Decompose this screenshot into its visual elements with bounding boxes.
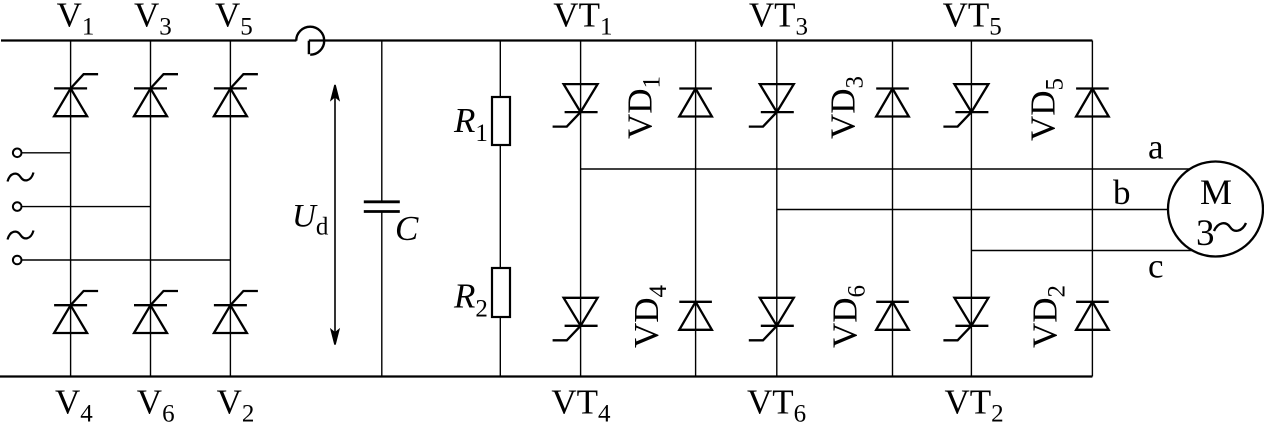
- fuse / breaker symbol on top bus: [296, 27, 324, 55]
- diode VD3: [876, 89, 909, 117]
- wire: bottom DC bus: [0, 375, 1092, 377]
- AC source tilde 1: [8, 173, 34, 182]
- diode VD2: [1076, 302, 1109, 330]
- diode VD6: [876, 302, 909, 330]
- AC terminal 1: [13, 149, 22, 158]
- thyristor V2: [214, 291, 258, 333]
- thyristor V4: [54, 291, 98, 333]
- Ud voltage arrow: [331, 85, 338, 345]
- wire: VT3/VT6 leg: [776, 41, 778, 377]
- thyristor V5: [214, 74, 258, 116]
- wire: top DC bus left segment: [1, 39, 296, 41]
- thyristor V3: [134, 74, 178, 116]
- thyristor VT3: [749, 84, 794, 127]
- thyristor VT5: [943, 84, 988, 127]
- wire: capacitor leg bottom: [381, 212, 383, 377]
- wire: phase b output: [777, 209, 1216, 211]
- wire: VT5/VT2 leg: [970, 41, 972, 377]
- thyristor V6: [134, 291, 178, 333]
- resistor R2: [492, 268, 510, 317]
- diode VD4: [679, 302, 712, 330]
- wire: top DC bus right segment: [309, 39, 1093, 41]
- svg-text:c: c: [1148, 247, 1164, 286]
- diode VD5: [1076, 89, 1109, 117]
- wire: VT1/VT4 leg: [580, 41, 582, 377]
- capacitor C: [364, 202, 400, 212]
- thyristor VT6: [749, 298, 794, 341]
- diode VD1: [679, 89, 712, 117]
- thyristor VT4: [553, 298, 598, 341]
- wire: VD3/VD6 leg: [892, 41, 894, 377]
- AC source tilde 2: [8, 231, 34, 240]
- wire: phase 3 line: [21, 259, 230, 261]
- thyristor V1: [54, 74, 98, 116]
- wire: phase a output: [581, 168, 1216, 170]
- resistor R1: [492, 97, 510, 145]
- svg-text:M: M: [1200, 172, 1232, 212]
- wire: V1/V4 leg: [70, 41, 72, 377]
- AC terminal 3: [13, 256, 22, 265]
- wire: capacitor leg top: [381, 41, 383, 202]
- wire: VD5/VD2 leg: [1091, 41, 1093, 377]
- wire: phase 2 line: [21, 206, 150, 208]
- svg-text:C: C: [395, 209, 419, 248]
- thyristor VT1: [553, 84, 598, 127]
- AC terminal 2: [13, 202, 22, 211]
- wire: V5/V2 leg: [229, 41, 231, 377]
- wire: phase c output: [971, 250, 1216, 252]
- svg-text:b: b: [1113, 173, 1131, 212]
- thyristor VT2: [943, 298, 988, 341]
- wire: R1/R2 leg: [499, 41, 501, 377]
- wire: V3/V6 leg: [150, 41, 152, 377]
- wire: phase 1 line: [21, 152, 70, 154]
- svg-text:a: a: [1148, 127, 1164, 166]
- motor M circle: [1168, 162, 1263, 257]
- svg-text:3: 3: [1196, 213, 1215, 254]
- wire: VD1/VD4 leg: [695, 41, 697, 377]
